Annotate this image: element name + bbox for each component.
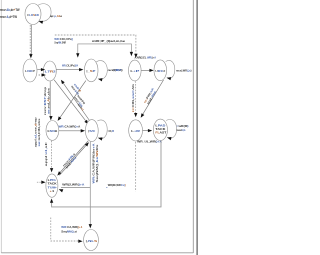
node 9 (3-line) with loop (153, 119, 167, 140)
svg-text:L7R2: L7R2 (45, 70, 56, 74)
self-loop on ESTAB-mid (96, 61, 107, 80)
node SYN-right with loop (154, 60, 167, 81)
svg-text:rc(RST): rc(RST) (113, 68, 123, 72)
node ESTAB-mid with loop (84, 59, 98, 82)
diagonal right node to node8 (142, 80, 163, 115)
svg-text:rc:FIN,snd:Ab: rc:FIN,snd:Ab (131, 84, 135, 113)
svg-text:|5/C: |5/C (88, 129, 96, 133)
svg-text:|_SP: |_SP (86, 69, 95, 73)
self-loop node9 (166, 119, 176, 138)
wire node8 to node9 (143, 130, 150, 132)
svg-text:se:nd,Ab,cbs: se:nd,Ab,cbs (46, 87, 50, 114)
svg-text:WR:CX,UPs()54: WR:CX,UPs()54 (62, 64, 78, 68)
node 8 (129, 120, 143, 141)
self-loop right node (166, 60, 175, 78)
vertical node6 down to node10 (89, 142, 91, 225)
svg-text:recv(;WR(,)s): recv(;WR(,)s) (176, 69, 192, 73)
page right border (192, 0, 194, 253)
svg-text:LNOP: LNOP (25, 69, 35, 73)
dashed vertical ESTABLISHED to node7 (51, 141, 53, 169)
svg-text:TUM•: TUM• (48, 185, 57, 189)
page left border (0, 0, 2, 253)
node SYN_RCVD (left pair right) (43, 61, 56, 81)
wire SYN_SENT to right (141, 69, 151, 71)
self-loop on CLOSED (38, 4, 51, 22)
svg-text:LPD•: LPD• (48, 178, 57, 182)
wire CLOSED to LISTEN (dashed+solid pair) (29, 25, 31, 56)
dashed L path to SYN_SENT top (55, 35, 136, 54)
page bottom border (1, 252, 193, 254)
svg-text:+1: +1 (50, 189, 55, 193)
svg-text:FLAST: FLAST (155, 131, 166, 135)
svg-text:recv:Ab,de+TW: recv:Ab,de+TW (0, 8, 20, 12)
page right shadow (196, 0, 198, 255)
diagonal node6 back to SYN_RCVD (62, 82, 91, 123)
diagonal ESTAB-mid to ESTABLISHED (59, 81, 86, 119)
svg-text:A,NR(2,E)_WR()+A: A,NR(2,E)_WR()+A (135, 55, 157, 59)
svg-text:wait,b: wait,b (175, 128, 185, 132)
svg-text:SeqNM,SNR: SeqNM,SNR (54, 40, 66, 44)
horizontal wire into node7 right (61, 187, 90, 189)
diagonal node7 to node6 (59, 144, 87, 176)
svg-text:WR(2E,WRCs(): WR(2E,WRCs() (108, 183, 126, 187)
channel: node9 bottom, left, up into node7 (52, 141, 161, 207)
svg-text:recv:A,d+TW: recv:A,d+TW (0, 15, 18, 19)
node LISTEN (23, 59, 37, 82)
svg-text:ESNB: ESNB (47, 129, 58, 133)
diagonal node6 to node7 (59, 141, 88, 174)
wire LISTEN to SYN_RCVD solid (37, 69, 42, 71)
svg-text:SeqNM(),bsSNRs: SeqNM(),bsSNRs (95, 144, 99, 183)
svg-text:CLOSED: CLOSED (27, 13, 40, 17)
node ESTABLISHED (46, 120, 59, 140)
node 10 (84, 230, 99, 251)
dashed L into node10 left (51, 218, 80, 242)
vertical wire SYN_RCVD to ESTABLISHED (49, 81, 51, 117)
svg-text:mID;IP_(I)ad,m,be: mID;IP_(I)ad,m,be (92, 39, 126, 43)
self-loop node6 (97, 120, 107, 139)
wire ESTABLISHED to node6 (59, 130, 82, 132)
solid L path to SYN_SENT top (78, 44, 132, 55)
diagonal SYN_RCVD to node6 (54, 80, 86, 122)
dashed stub into node7 left (37, 181, 43, 183)
node 7 (4-line) (46, 174, 58, 197)
svg-text:WR_UL,WR()+A: WR_UL,WR()+A (137, 139, 163, 143)
wire LISTEN to SYN_RCVD dashed (39, 74, 43, 76)
svg-text:SeqNM(),si: SeqNM(),si (61, 229, 77, 233)
dashed vertical SYN_SENT to node8 (135, 81, 137, 113)
svg-text:|,NLS: |,NLS (86, 239, 98, 243)
svg-text:WR(2,WR()+A: WR(2,WR()+A (62, 182, 84, 186)
wire SYN_RCVD to ESTAB-mid (56, 69, 80, 71)
svg-text:L•P: L•P (130, 69, 139, 73)
node SYN_SENT (129, 60, 142, 81)
svg-text:TACK: TACK (48, 182, 57, 186)
svg-text:WR:CA,WR()+A: WR:CA,WR()+A (59, 125, 82, 129)
svg-text:=O,R: =O,R (108, 129, 115, 133)
svg-text:ap:p,Abe: ap:p,Abe (50, 14, 62, 18)
node 6 with loop (85, 120, 98, 142)
svg-text:se:nd,FIN,sbs: se:nd,FIN,sbs (37, 118, 41, 147)
node CLOSED (top) (25, 4, 41, 25)
dashed vertical from node8 down (135, 142, 137, 192)
svg-text:URC2: URC2 (155, 69, 165, 73)
svg-text:L•R: L•R (131, 129, 141, 133)
svg-text:appl:cl,sF: appl:cl,sF (44, 142, 48, 167)
